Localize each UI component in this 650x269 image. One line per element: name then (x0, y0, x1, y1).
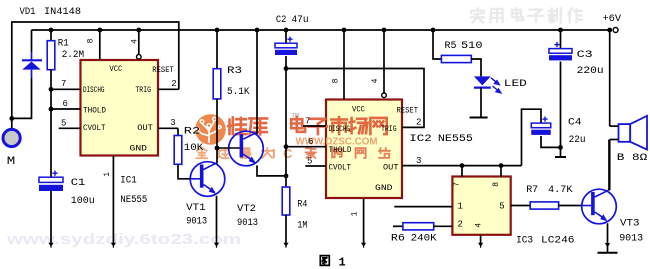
svg-text:B 8Ω: B 8Ω (617, 152, 648, 164)
svg-text:VT3: VT3 (620, 217, 640, 229)
svg-text:4: 4 (131, 39, 140, 44)
svg-text:www.sydzdiy.6to23.com: www.sydzdiy.6to23.com (6, 232, 241, 248)
svg-text:2: 2 (416, 118, 421, 128)
svg-text:R6: R6 (391, 233, 405, 245)
svg-text:8: 8 (492, 182, 501, 187)
svg-text:240K: 240K (411, 233, 438, 245)
svg-text:C3: C3 (577, 49, 593, 61)
svg-text:C2: C2 (276, 14, 287, 26)
svg-text:4: 4 (475, 223, 484, 228)
svg-text:5: 5 (61, 119, 66, 129)
svg-text:THOLD: THOLD (329, 146, 352, 155)
svg-text:7: 7 (61, 79, 66, 89)
svg-text:2.2M: 2.2M (62, 49, 84, 61)
svg-text:6: 6 (308, 137, 313, 147)
svg-text:OUT: OUT (383, 164, 399, 173)
svg-text:8: 8 (332, 78, 341, 83)
svg-text:NE555: NE555 (120, 194, 147, 206)
svg-text:2: 2 (458, 219, 463, 229)
svg-text:RESET: RESET (397, 106, 419, 115)
svg-text:LED: LED (504, 78, 527, 90)
svg-text:6: 6 (63, 99, 68, 109)
svg-text:220u: 220u (577, 65, 604, 77)
svg-text:R4: R4 (297, 199, 307, 211)
svg-text:4.7K: 4.7K (548, 184, 573, 196)
svg-text:VCC: VCC (109, 65, 122, 74)
svg-text:1M: 1M (297, 219, 307, 231)
svg-text:510: 510 (461, 40, 483, 52)
svg-text:I: I (272, 146, 276, 161)
svg-text:47u: 47u (292, 14, 309, 26)
svg-text:C1: C1 (71, 177, 86, 189)
svg-text:M: M (7, 156, 16, 168)
svg-text:TRIG: TRIG (135, 86, 151, 95)
svg-text:CVOLT: CVOLT (329, 164, 352, 173)
svg-text:GND: GND (130, 144, 148, 153)
svg-text:THOLD: THOLD (83, 107, 106, 116)
svg-text:5: 5 (307, 157, 312, 167)
svg-text:7: 7 (305, 117, 310, 127)
svg-text:9013: 9013 (619, 233, 643, 245)
svg-text:3: 3 (416, 156, 421, 166)
svg-text:+6V: +6V (603, 13, 622, 25)
svg-text:1: 1 (103, 172, 112, 177)
svg-text:RESET: RESET (152, 66, 174, 75)
svg-text:VT2: VT2 (237, 203, 256, 215)
svg-text:22u: 22u (569, 134, 586, 146)
svg-text:IN4148: IN4148 (44, 6, 81, 18)
svg-text:VCC: VCC (352, 106, 365, 115)
svg-text:VD1: VD1 (20, 6, 36, 18)
svg-text:5: 5 (499, 201, 504, 211)
svg-text:IC2: IC2 (409, 133, 432, 145)
svg-text:R5: R5 (445, 40, 457, 52)
svg-text:3: 3 (170, 118, 175, 128)
svg-text:C4: C4 (568, 117, 582, 129)
svg-text:LC246: LC246 (541, 235, 575, 247)
svg-text:1: 1 (458, 201, 463, 211)
svg-text:DISCHG: DISCHG (83, 86, 105, 95)
svg-text:1: 1 (339, 256, 346, 269)
svg-text:10K: 10K (184, 142, 204, 154)
svg-text:TRIG: TRIG (381, 125, 397, 134)
svg-text:R3: R3 (227, 65, 242, 77)
svg-text:9013: 9013 (237, 217, 258, 229)
svg-text:NE555: NE555 (438, 133, 473, 145)
svg-text:100u: 100u (71, 195, 95, 207)
svg-text:2: 2 (171, 79, 176, 89)
svg-text:GND: GND (375, 184, 393, 193)
svg-text:IC1: IC1 (120, 175, 137, 187)
svg-text:CVOLT: CVOLT (83, 124, 106, 133)
svg-text:7: 7 (452, 182, 461, 187)
svg-text:R7: R7 (526, 184, 538, 196)
svg-text:5.1K: 5.1K (227, 86, 250, 98)
svg-text:R2: R2 (184, 126, 201, 138)
svg-text:VT1: VT1 (186, 202, 206, 214)
svg-text:1: 1 (351, 211, 360, 216)
svg-text:IC3: IC3 (516, 235, 533, 247)
svg-text:4: 4 (371, 78, 380, 83)
svg-text:OUT: OUT (137, 124, 153, 133)
svg-text:9013: 9013 (186, 216, 207, 228)
svg-text:DISCHG: DISCHG (329, 125, 351, 134)
svg-text:8: 8 (87, 38, 96, 43)
svg-text:R1: R1 (58, 37, 69, 49)
